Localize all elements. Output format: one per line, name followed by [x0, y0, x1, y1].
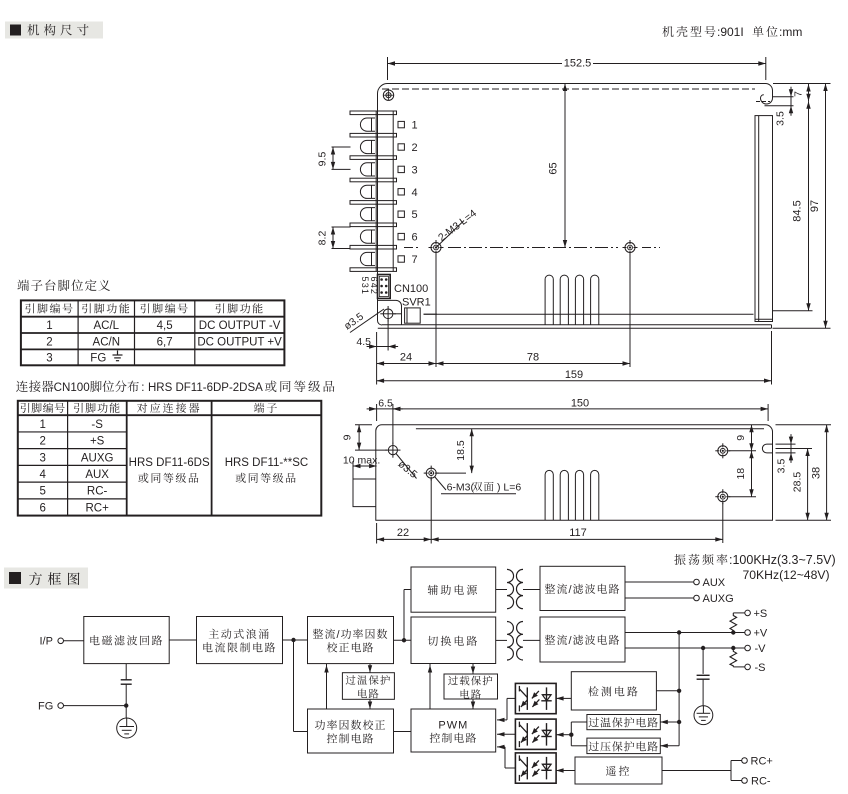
svg-text:5: 5: [39, 486, 45, 498]
svg-text:RC-: RC-: [87, 486, 108, 498]
svg-text:18.5: 18.5: [455, 440, 467, 461]
svg-text:-S: -S: [91, 419, 103, 431]
svg-text:28.5: 28.5: [792, 472, 804, 493]
svg-text:引脚功能: 引脚功能: [73, 400, 121, 416]
svg-text:遥控: 遥控: [606, 763, 632, 779]
svg-text:引脚功能: 引脚功能: [81, 301, 131, 317]
svg-text:3: 3: [46, 353, 52, 365]
svg-text:振荡频率: 振荡频率: [674, 551, 730, 568]
svg-text:9: 9: [342, 434, 354, 440]
svg-text:FG: FG: [90, 353, 106, 365]
svg-text:3: 3: [412, 164, 418, 176]
svg-text:引脚功能: 引脚功能: [215, 301, 265, 317]
svg-text::: :: [141, 382, 144, 394]
svg-text:150: 150: [571, 398, 589, 410]
svg-text:70KHz(12~48V): 70KHz(12~48V): [743, 568, 830, 582]
svg-text::100KHz(3.3~7.5V): :100KHz(3.3~7.5V): [729, 553, 836, 567]
svg-text:CN100: CN100: [54, 381, 90, 394]
svg-text:2-M3 L=4: 2-M3 L=4: [436, 207, 479, 244]
svg-text:5: 5: [412, 209, 418, 221]
svg-text:或同等级品: 或同等级品: [235, 470, 298, 486]
svg-text::901I: :901I: [717, 25, 744, 39]
svg-text:脚位分布: 脚位分布: [90, 377, 140, 395]
svg-text:双面: 双面: [472, 480, 495, 495]
svg-text:6,7: 6,7: [157, 336, 173, 348]
svg-text:97: 97: [809, 200, 821, 212]
svg-text::mm: :mm: [779, 25, 802, 39]
svg-text:+S: +S: [754, 608, 768, 620]
svg-text:152.5: 152.5: [564, 58, 592, 70]
svg-text:控制电路: 控制电路: [327, 730, 375, 746]
svg-text:HRS DF11-6DS: HRS DF11-6DS: [129, 457, 210, 469]
svg-text:AUX: AUX: [85, 469, 109, 481]
svg-text:RC-: RC-: [751, 776, 771, 788]
svg-text:ø3.5: ø3.5: [342, 310, 366, 332]
svg-text:+S: +S: [90, 436, 105, 448]
svg-text:9.5: 9.5: [317, 152, 329, 167]
svg-text:检测电路: 检测电路: [588, 683, 640, 699]
svg-text:+V: +V: [754, 628, 768, 640]
svg-text:HRS DF11-**SC: HRS DF11-**SC: [225, 457, 309, 469]
svg-text:或同等级品: 或同等级品: [138, 470, 201, 486]
svg-text:4.5: 4.5: [356, 336, 371, 348]
svg-text:整流/滤波电路: 整流/滤波电路: [544, 581, 620, 597]
svg-text:AUX: AUX: [703, 577, 726, 589]
svg-text:机壳型号: 机壳型号: [662, 23, 718, 40]
svg-text:6: 6: [412, 232, 418, 244]
svg-text:校正电路: 校正电路: [327, 639, 375, 655]
svg-text:SVR1: SVR1: [402, 297, 431, 309]
svg-text:AUXG: AUXG: [81, 452, 114, 464]
svg-text:RC+: RC+: [85, 502, 109, 514]
svg-text:端子: 端子: [253, 400, 279, 416]
svg-text:117: 117: [569, 527, 587, 539]
svg-text:2: 2: [46, 336, 52, 348]
svg-text:电路: 电路: [459, 687, 482, 702]
svg-text:I/P: I/P: [40, 636, 53, 648]
svg-text:切换电路: 切换电路: [427, 633, 479, 649]
svg-text:AUXG: AUXG: [703, 593, 734, 605]
svg-text:控制电路: 控制电路: [429, 730, 477, 746]
svg-text:9: 9: [735, 435, 747, 441]
svg-text:HRS DF11-6DP-2DSA: HRS DF11-6DP-2DSA: [148, 382, 263, 394]
svg-text:18: 18: [735, 468, 747, 480]
svg-text:过压保护电路: 过压保护电路: [588, 738, 659, 754]
svg-text:FG: FG: [38, 701, 53, 713]
svg-text:连接器: 连接器: [16, 377, 55, 395]
svg-text:3: 3: [39, 452, 45, 464]
svg-text:电磁滤波回路: 电磁滤波回路: [89, 633, 164, 649]
svg-text:6: 6: [39, 502, 45, 514]
svg-text:38: 38: [811, 467, 823, 479]
svg-text:22: 22: [397, 527, 409, 539]
svg-text:1: 1: [412, 120, 418, 132]
svg-text:机构尺寸: 机构尺寸: [27, 21, 93, 39]
svg-text:-S: -S: [755, 662, 766, 674]
svg-text:DC OUTPUT -V: DC OUTPUT -V: [199, 320, 281, 332]
svg-text:AC/L: AC/L: [94, 320, 120, 332]
svg-text:7: 7: [793, 91, 805, 97]
svg-text:CN100: CN100: [394, 283, 428, 295]
svg-text:3.5: 3.5: [776, 459, 788, 474]
svg-text:电路: 电路: [357, 686, 380, 701]
svg-text:电流限制电路: 电流限制电路: [202, 639, 277, 655]
svg-text:-V: -V: [755, 643, 767, 655]
svg-text:AC/N: AC/N: [93, 336, 120, 348]
svg-text:整流/滤波电路: 整流/滤波电路: [544, 632, 620, 648]
svg-text:DC OUTPUT +V: DC OUTPUT +V: [197, 336, 282, 348]
svg-text:或同等级品: 或同等级品: [265, 377, 338, 395]
svg-text:4,5: 4,5: [157, 320, 173, 332]
svg-text:1: 1: [39, 419, 45, 431]
svg-text:单位: 单位: [752, 23, 780, 40]
svg-text:7: 7: [412, 254, 418, 266]
svg-text:4: 4: [412, 187, 418, 199]
svg-text:531: 531: [360, 277, 370, 296]
svg-text:8.2: 8.2: [317, 231, 329, 246]
svg-text:) L=6: ) L=6: [497, 482, 521, 494]
svg-text:24: 24: [400, 352, 412, 364]
svg-text:RC+: RC+: [751, 756, 773, 768]
svg-text:引脚编号: 引脚编号: [25, 301, 75, 317]
svg-text:159: 159: [565, 369, 583, 381]
svg-text:对应连接器: 对应连接器: [137, 400, 202, 416]
svg-text:84.5: 84.5: [792, 200, 804, 221]
svg-text:2: 2: [39, 436, 45, 448]
svg-text:3.5: 3.5: [775, 111, 787, 126]
svg-text:方框图: 方框图: [29, 569, 86, 589]
svg-text:过温保护电路: 过温保护电路: [588, 715, 659, 731]
svg-text:65: 65: [548, 162, 560, 174]
svg-text:4: 4: [39, 469, 46, 481]
svg-text:6.5: 6.5: [378, 398, 393, 410]
svg-text:引脚编号: 引脚编号: [20, 400, 66, 416]
svg-text:78: 78: [527, 352, 539, 364]
svg-text:10 max.: 10 max.: [343, 455, 380, 467]
svg-text:辅助电源: 辅助电源: [427, 582, 479, 598]
svg-text:2: 2: [412, 142, 418, 154]
svg-text:端子台脚位定义: 端子台脚位定义: [17, 276, 112, 294]
svg-text:6-M3(: 6-M3(: [447, 482, 475, 494]
svg-text:1: 1: [46, 320, 52, 332]
svg-text:引脚编号: 引脚编号: [140, 301, 190, 317]
